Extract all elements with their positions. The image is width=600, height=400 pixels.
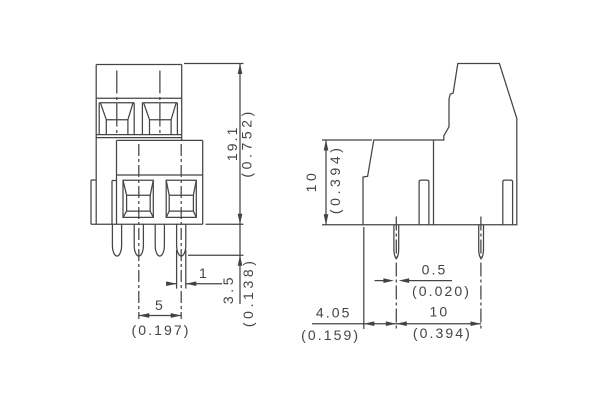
bottom dims extension left edge [363,227,365,329]
arrow dim0.5 right [399,278,410,283]
arrow dim10h right [471,321,482,326]
svg-text:(0.197): (0.197) [131,322,190,338]
clamp window 2 [166,180,196,217]
svg-text:0.5: 0.5 [422,262,448,278]
screw opening 2 [142,103,177,135]
svg-text:10: 10 [303,170,319,193]
dim 10 vertical: extensions [322,140,372,225]
screw 1 centerline [116,71,118,135]
svg-text:(0.752): (0.752) [239,108,255,178]
svg-text:3.5: 3.5 [220,274,236,304]
clamp centerline pin4 [180,144,182,319]
pin 2 [134,224,143,256]
screw 2 centerline [159,71,161,135]
bottom dim line 4.05 / 10 [312,323,481,325]
clamp window 1 [123,180,153,217]
svg-text:10: 10 [430,304,450,320]
dim 10 vertical line [325,140,327,225]
screw opening 1 [99,103,134,135]
dim 0.5: right segment [409,280,453,282]
arrow dim0.5 left [383,278,394,283]
pin 4 [177,224,186,256]
side slot rect left [419,180,429,225]
svg-text:(0.138): (0.138) [240,258,256,328]
side pin right centerline [480,217,482,330]
svg-text:(0.159): (0.159) [301,327,360,343]
pin4 edge extension lines for dim 1 [177,250,186,289]
side view outline [363,64,517,225]
svg-text:1: 1 [199,265,209,281]
arrow dim4.05 right [386,321,397,326]
arrow 19.1 bottom [238,214,243,225]
side inner vertical [433,140,435,225]
dim 5 line [139,315,181,317]
arrow dim10v top [324,140,329,151]
clamp centerline pin2 [138,144,140,319]
dim 0.5: left segment [375,280,385,282]
arrow dim10h left [396,321,407,326]
front view: lower box outline [91,140,203,224]
pin bottom extension (3.5) [188,254,244,256]
dim line 19.1/3.5 [239,64,241,305]
front view: top box outline [96,65,182,225]
arrow dim10v bottom [324,214,329,225]
dim 1 line right [186,283,222,285]
pin 3 [155,224,164,256]
dim 1 line left [167,283,177,285]
dimension texts [131,108,471,343]
dim 19.1 extension bottom [206,223,244,225]
left ear lower level [112,181,117,225]
svg-text:5: 5 [155,297,165,313]
arrow dim1 right [186,281,197,286]
arrowheads [139,64,481,327]
side slot rect right [503,180,513,225]
side pin left centerline [395,217,397,330]
pin 1 [112,224,121,256]
arrow dim1 left [166,281,177,286]
arrow dim4.05 left [364,321,375,326]
svg-text:(0.020): (0.020) [412,283,471,299]
svg-text:(0.394): (0.394) [327,145,343,215]
side pin right [479,225,484,258]
dim 19.1 extension top [184,63,244,65]
svg-text:(0.394): (0.394) [413,325,472,341]
left ear upper level [91,180,96,224]
arrow 3.5 bottom outside [238,255,243,266]
side pin left [394,225,399,258]
arrow dim5 right [171,313,182,318]
arrow dim5 left [139,313,150,318]
svg-text:4.05: 4.05 [316,305,352,321]
arrow 19.1 top [238,64,243,75]
